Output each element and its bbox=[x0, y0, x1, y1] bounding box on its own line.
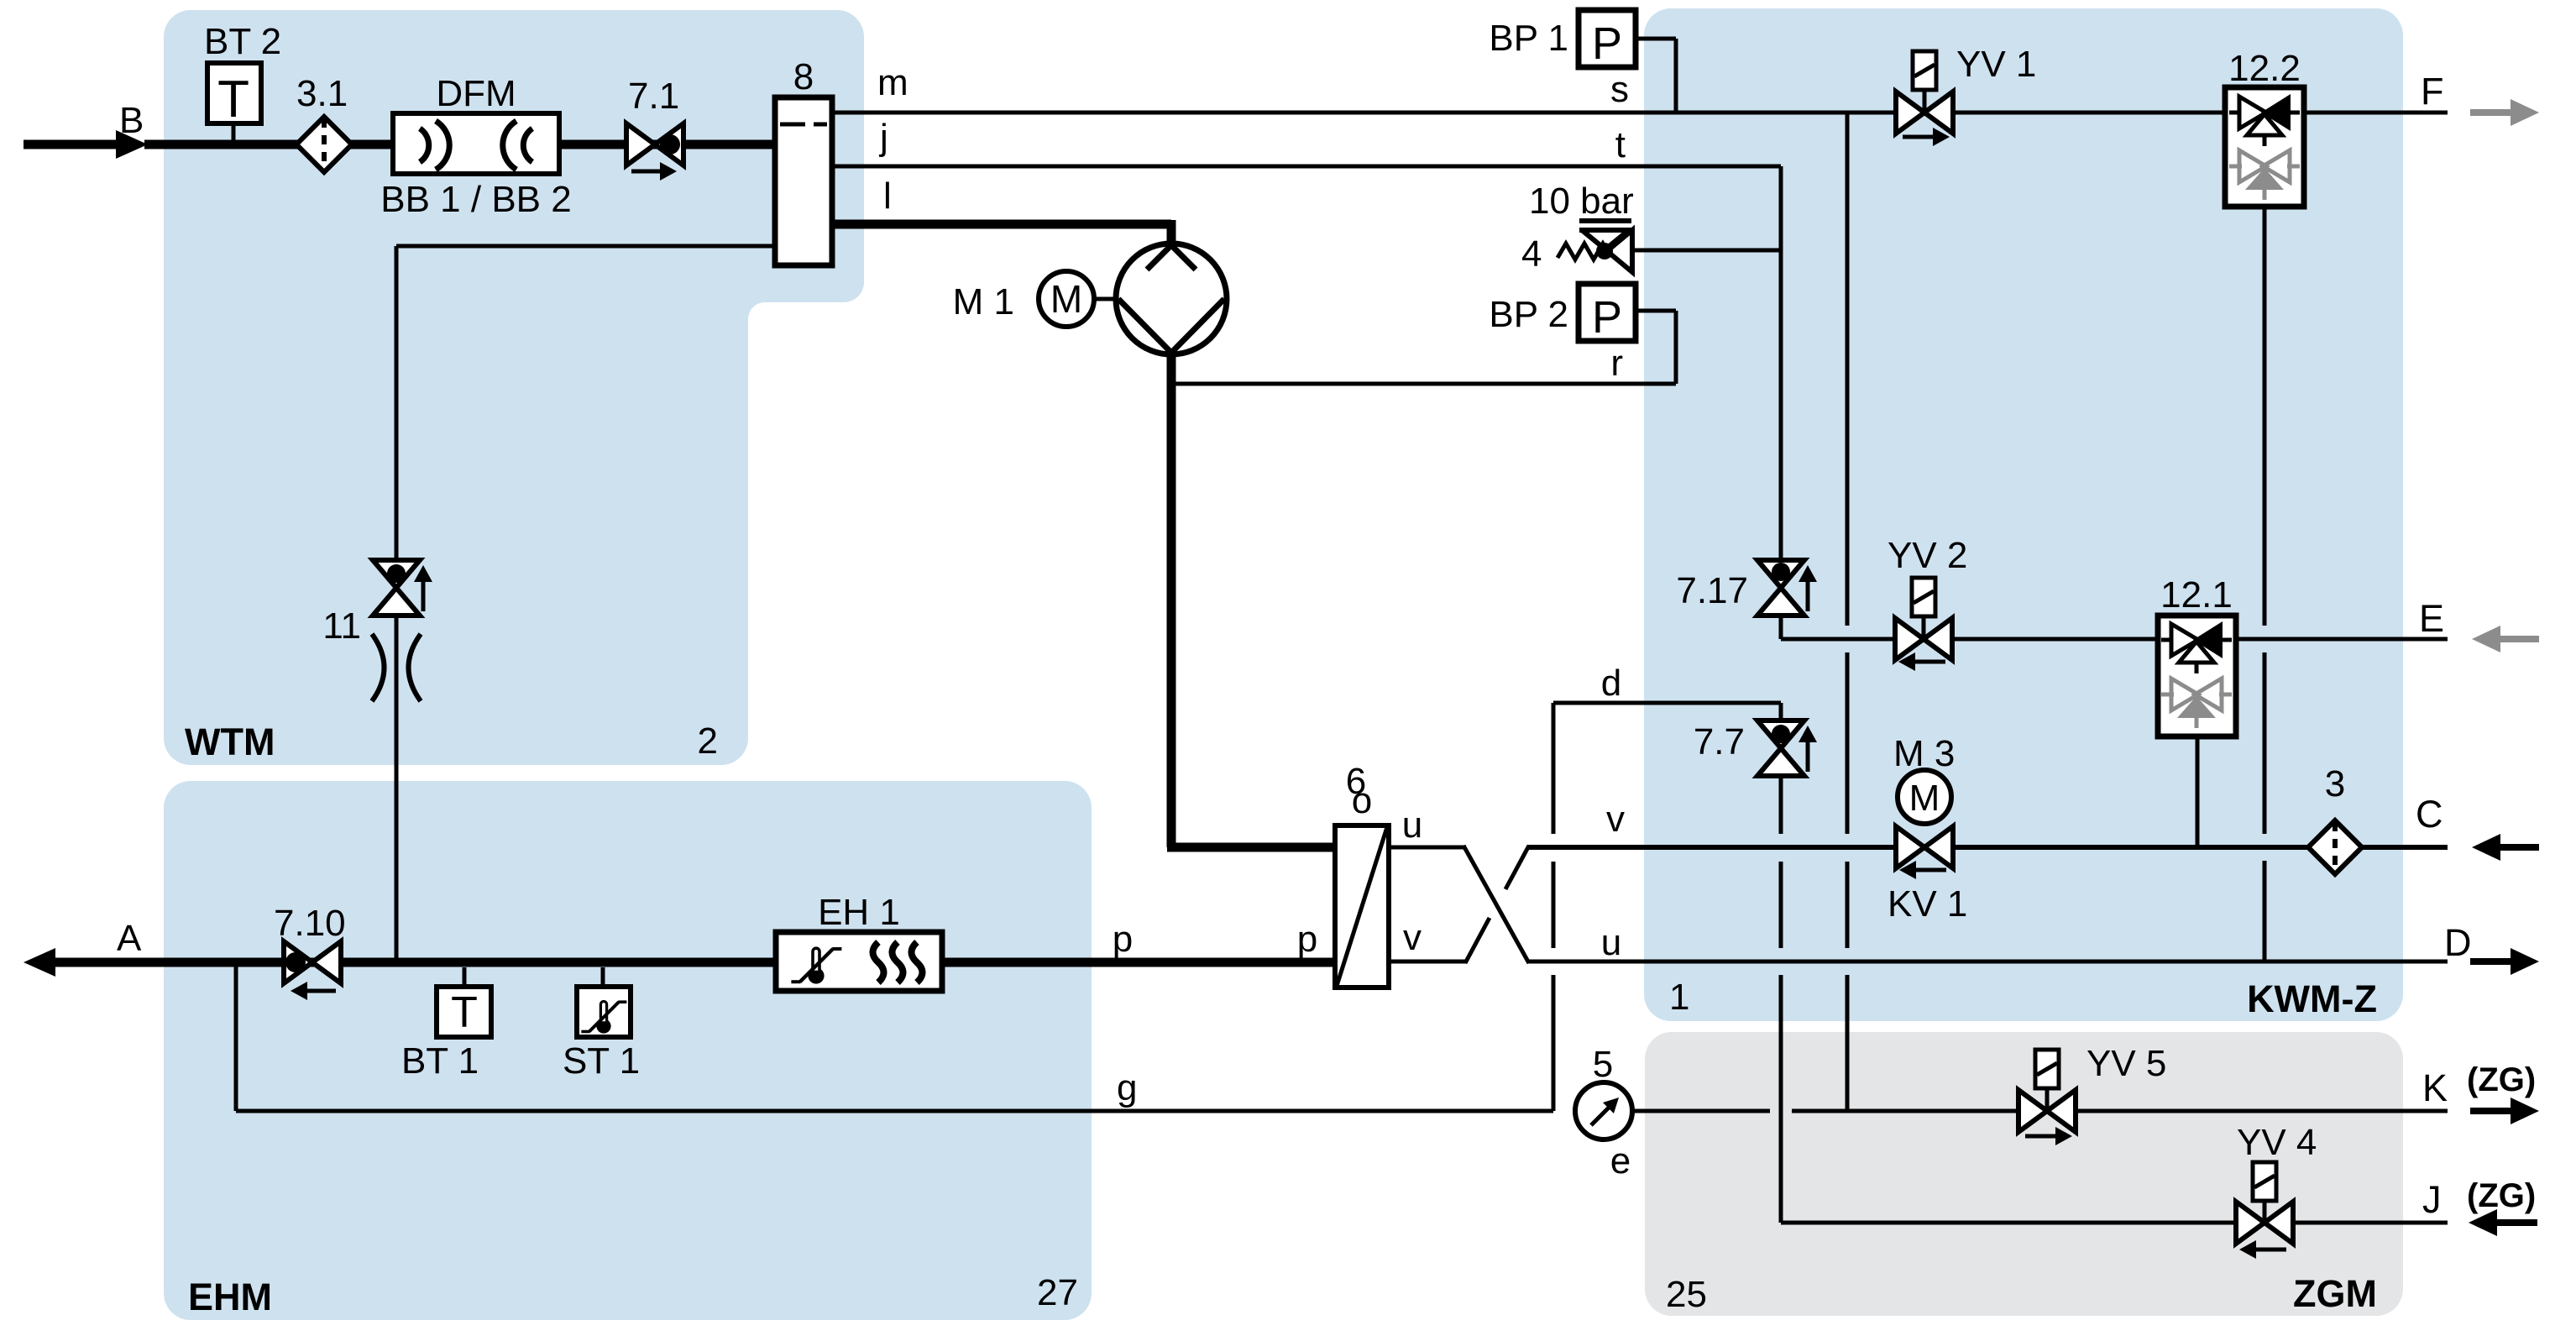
svg-text:KWM-Z: KWM-Z bbox=[2247, 977, 2377, 1020]
svg-text:WTM: WTM bbox=[185, 720, 275, 763]
wire heat-exchanger u path bbox=[1389, 846, 1466, 850]
wire crossing column (x=1850) bbox=[1552, 703, 1556, 834]
wire pump outlet thick vertical bbox=[1167, 353, 1176, 847]
wire valve-11 column (x=472) bbox=[396, 244, 775, 249]
svg-text:l: l bbox=[883, 176, 892, 217]
svg-text:YV 5: YV 5 bbox=[2086, 1043, 2166, 1084]
restrictor below valve 11 bbox=[372, 634, 385, 701]
flow sensor DFM emitter arcs bbox=[420, 128, 429, 162]
svg-text:7.17: 7.17 bbox=[1676, 570, 1748, 611]
wire t column (x=2121) upper bbox=[1779, 166, 1783, 558]
balance chamber 8 box bbox=[775, 97, 832, 265]
wire s column (x=2200) bbox=[1846, 113, 1850, 626]
filter 3 diamond bbox=[2308, 820, 2362, 874]
svg-text:(ZG): (ZG) bbox=[2467, 1061, 2536, 1098]
svg-text:YV 1: YV 1 bbox=[1956, 44, 2036, 85]
check valve block 12.1 box bbox=[2158, 616, 2236, 736]
flow sensor DFM box bbox=[393, 113, 559, 174]
svg-text:M 3: M 3 bbox=[1893, 733, 1955, 774]
svg-text:r: r bbox=[1610, 343, 1623, 384]
check valve 12.2 gray bbox=[2229, 165, 2242, 169]
svg-text:BB 1 / BB 2: BB 1 / BB 2 bbox=[380, 179, 571, 220]
wire A-p thick line (y=1146) bbox=[101, 958, 1335, 967]
svg-text:P: P bbox=[1592, 18, 1622, 69]
heat exchanger 6 box bbox=[1335, 825, 1389, 988]
svg-text:v: v bbox=[1606, 799, 1625, 840]
svg-text:u: u bbox=[1402, 804, 1422, 846]
svg-text:P: P bbox=[1592, 292, 1622, 343]
filter 3.1 diamond bbox=[296, 117, 352, 172]
sensor BT2 box bbox=[232, 123, 236, 144]
svg-text:u: u bbox=[1601, 922, 1621, 963]
svg-text:F: F bbox=[2421, 70, 2444, 113]
svg-text:p: p bbox=[1113, 919, 1133, 960]
svg-text:YV 2: YV 2 bbox=[1887, 535, 1967, 576]
check valve 12.1 gray bbox=[2161, 693, 2174, 697]
module region EHM (background) bbox=[164, 781, 1092, 1320]
wire v-C line (y=1009) bbox=[1527, 845, 2448, 850]
relief valve 4 bbox=[1579, 218, 1631, 223]
wire d column (x=2121) lower bbox=[1779, 703, 1783, 723]
wire relief-valve-4 outlet (y=298) bbox=[1632, 249, 1781, 253]
svg-text:d: d bbox=[1601, 663, 1621, 704]
svg-text:12.2: 12.2 bbox=[2228, 48, 2301, 89]
module region WTM (background) bbox=[164, 10, 864, 765]
svg-text:g: g bbox=[1117, 1067, 1137, 1108]
sensor BP1 box bbox=[1579, 10, 1636, 67]
svg-text:EH 1: EH 1 bbox=[818, 892, 900, 933]
svg-text:t: t bbox=[1615, 124, 1626, 165]
valve YV2 bbox=[1912, 578, 1935, 616]
svg-text:e: e bbox=[1610, 1140, 1631, 1181]
wire J line (y=1456) bbox=[1781, 1221, 2448, 1225]
wire BP2 sense line r bbox=[1636, 309, 1676, 313]
svg-text:12.1: 12.1 bbox=[2160, 574, 2233, 616]
wire j-t line (y=198) bbox=[832, 165, 1781, 169]
wire u-D line (y=1145) bbox=[1527, 960, 2448, 964]
svg-text:DFM: DFM bbox=[436, 73, 516, 114]
svg-text:BT 1: BT 1 bbox=[401, 1040, 479, 1082]
svg-text:5: 5 bbox=[1593, 1044, 1613, 1085]
svg-text:(ZG): (ZG) bbox=[2467, 1177, 2536, 1214]
svg-text:2: 2 bbox=[698, 720, 718, 762]
svg-text:M: M bbox=[1909, 778, 1940, 819]
svg-text:K: K bbox=[2422, 1066, 2448, 1109]
heater EH1 box bbox=[776, 932, 942, 991]
svg-text:25: 25 bbox=[1666, 1274, 1707, 1315]
wire 12.1 stub bbox=[2196, 736, 2200, 847]
svg-text:BP 1: BP 1 bbox=[1489, 18, 1568, 59]
svg-text:BP 2: BP 2 bbox=[1489, 294, 1568, 335]
valve 11 bbox=[373, 560, 420, 588]
valve YV4 bbox=[2253, 1162, 2276, 1201]
svg-text:KV 1: KV 1 bbox=[1887, 883, 1967, 925]
svg-text:A: A bbox=[117, 918, 142, 959]
svg-text:27: 27 bbox=[1037, 1272, 1078, 1313]
svg-text:7.1: 7.1 bbox=[628, 76, 679, 117]
wire d line (y=837) bbox=[1553, 701, 1781, 705]
arrow A outlet bbox=[24, 948, 55, 977]
svg-text:10 bar: 10 bar bbox=[1529, 181, 1634, 222]
sensor BT1 box bbox=[463, 967, 467, 987]
wire g line (y=1323) bbox=[234, 962, 238, 1111]
gauge 5 bbox=[1575, 1082, 1632, 1140]
wire 12.2 column bbox=[2263, 207, 2267, 626]
wire BP1 sense line bbox=[1636, 37, 1676, 41]
svg-text:1: 1 bbox=[1669, 977, 1689, 1018]
svg-text:E: E bbox=[2419, 597, 2444, 640]
svg-text:7.7: 7.7 bbox=[1694, 721, 1745, 762]
svg-text:3.1: 3.1 bbox=[296, 73, 348, 114]
module region KWM-Z (background) bbox=[1644, 8, 2403, 1021]
valve YV5 bbox=[2035, 1050, 2059, 1088]
wire E line (y=761) bbox=[1781, 637, 2448, 642]
check valve block 12.2 box bbox=[2225, 87, 2304, 207]
svg-text:J: J bbox=[2422, 1178, 2442, 1221]
module region ZGM (background) bbox=[1645, 1032, 2403, 1316]
svg-text:8: 8 bbox=[793, 56, 814, 97]
svg-text:D: D bbox=[2444, 921, 2472, 964]
svg-text:j: j bbox=[878, 117, 888, 158]
arrow B inlet bbox=[24, 140, 118, 149]
check valve 12.2 black bbox=[2229, 111, 2242, 115]
valve 7.1 bbox=[626, 123, 655, 165]
svg-text:11: 11 bbox=[322, 605, 361, 647]
valve 7.17 bbox=[1757, 560, 1804, 588]
motor M1 circle bbox=[1094, 297, 1116, 301]
svg-text:BT 2: BT 2 bbox=[204, 21, 281, 62]
svg-text:EHM: EHM bbox=[188, 1276, 272, 1318]
svg-text:7.10: 7.10 bbox=[274, 903, 346, 944]
wire K line (y=1323) bbox=[1632, 1109, 1770, 1113]
svg-text:M 1: M 1 bbox=[953, 281, 1014, 322]
svg-text:4: 4 bbox=[1521, 233, 1542, 275]
valve YV1 bbox=[1913, 51, 1936, 90]
svg-text:M: M bbox=[1050, 277, 1082, 321]
motor M3 circle bbox=[1898, 770, 1951, 824]
svg-text:T: T bbox=[451, 988, 478, 1037]
svg-text:B: B bbox=[119, 100, 144, 141]
sensor BP2 box bbox=[1579, 284, 1636, 341]
wire B inlet thick (y=172) bbox=[144, 140, 775, 149]
svg-text:ZGM: ZGM bbox=[2293, 1272, 2377, 1315]
svg-text:p: p bbox=[1297, 919, 1317, 960]
svg-text:C: C bbox=[2416, 793, 2443, 836]
sensor ST1 box bbox=[601, 967, 605, 987]
svg-text:s: s bbox=[1610, 69, 1629, 110]
wire m-s-F main line (y=134) bbox=[832, 111, 2448, 115]
valve 7.10 bbox=[284, 941, 312, 983]
svg-text:3: 3 bbox=[2325, 763, 2345, 804]
wire heat-exchanger v diagonal (with bridge gap) bbox=[1465, 918, 1490, 963]
svg-text:ST 1: ST 1 bbox=[563, 1040, 640, 1082]
check valve 12.1 black bbox=[2161, 638, 2174, 642]
wire 7.17 branch corner bbox=[1779, 616, 1783, 639]
valve 7.7 bbox=[1757, 720, 1804, 748]
svg-text:m: m bbox=[877, 62, 908, 103]
svg-text:YV 4: YV 4 bbox=[2237, 1122, 2317, 1163]
svg-text:T: T bbox=[217, 71, 249, 128]
pump P1 circle bbox=[1116, 244, 1227, 354]
svg-text:v: v bbox=[1403, 917, 1422, 958]
valve KV1 bbox=[1896, 826, 1924, 868]
svg-text:o: o bbox=[1352, 780, 1372, 821]
wire l line thick (y=267) bbox=[832, 220, 1171, 229]
